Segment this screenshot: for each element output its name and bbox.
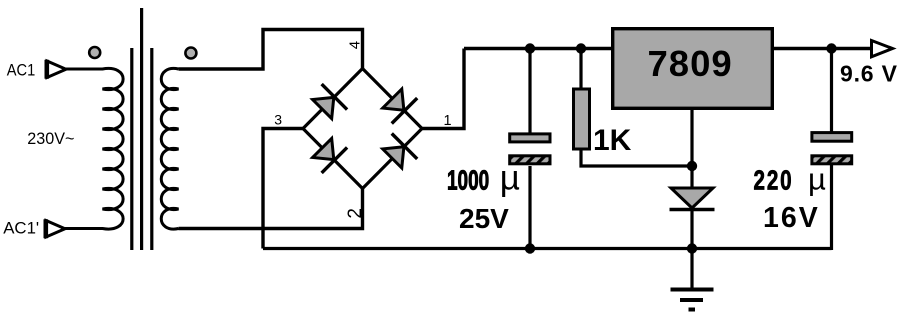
- wire C1 top stub: [528, 49, 531, 135]
- transformer T1 core: [132, 8, 152, 250]
- svg-text:16V: 16V: [763, 202, 820, 234]
- wire R1 top stub: [579, 49, 582, 91]
- svg-text:AC1: AC1: [7, 61, 36, 79]
- diode D5 anode triangle: [671, 188, 713, 208]
- svg-text:220: 220: [754, 166, 794, 197]
- svg-text:1: 1: [444, 113, 452, 129]
- bridge diode D2 (node 4 to node 1): [380, 86, 418, 124]
- wire AC1' to primary: [65, 227, 103, 230]
- wire ground rail: [263, 247, 832, 250]
- resistor R1: [574, 89, 590, 149]
- wire node 1 to positive rail: [422, 49, 464, 129]
- output arrow terminal: [872, 41, 893, 57]
- junction node C1 bottom: [525, 243, 535, 253]
- wire secondary bottom to bridge node 2: [179, 189, 363, 229]
- junction node R1 top: [576, 43, 586, 53]
- svg-text:3: 3: [274, 111, 282, 127]
- wire 7809 output: [774, 47, 872, 50]
- wire bridge edge 3-4: [303, 69, 363, 129]
- wire bridge edge 2-1: [363, 129, 423, 189]
- capacitor C1 1000u top plate: [510, 134, 550, 142]
- wire bridge edge 3-2: [303, 129, 363, 189]
- capacitor C2 220u bottom plate: [812, 156, 852, 164]
- wire C2 bottom stub: [830, 165, 833, 250]
- svg-text:9.6 V: 9.6 V: [840, 61, 898, 87]
- capacitor C2 220u top plate: [812, 133, 852, 142]
- svg-text:µ: µ: [500, 159, 520, 198]
- svg-text:2: 2: [345, 208, 366, 219]
- transformer T1 secondary winding: [161, 68, 178, 229]
- bridge diode D3 (node 3 to node 2): [309, 135, 347, 173]
- ground symbol: [671, 290, 714, 310]
- svg-text:1K: 1K: [593, 124, 632, 157]
- transformer T1 primary phase dot: [89, 47, 100, 58]
- junction node 7809 ground: [687, 161, 697, 171]
- terminal AC1: [47, 61, 66, 78]
- svg-text:4: 4: [346, 41, 363, 49]
- junction node output: [826, 43, 836, 53]
- svg-text:230V~: 230V~: [27, 129, 74, 148]
- wire 7809 ground pin: [690, 110, 693, 190]
- junction node C1 top: [525, 43, 535, 53]
- svg-text:25V: 25V: [459, 203, 509, 234]
- diode D5 cathode bar: [670, 208, 715, 212]
- transformer T1 primary winding: [103, 68, 124, 229]
- svg-text:7809: 7809: [648, 43, 733, 84]
- junction node ground rail: [687, 243, 697, 253]
- wire C2 top stub: [830, 49, 833, 133]
- IC U1 7809 body: [613, 29, 773, 109]
- capacitor C1 1000u bottom plate: [510, 156, 550, 164]
- bridge diode D1 (node 3 to node 4): [309, 84, 347, 122]
- wire bridge edge 4-1: [363, 69, 423, 129]
- svg-text:AC1': AC1': [3, 218, 39, 237]
- wire R1 bottom to 7809 ground node: [581, 149, 692, 166]
- svg-text:µ: µ: [808, 161, 826, 196]
- wire ground stem: [690, 249, 693, 290]
- wire D5 to ground rail: [690, 210, 693, 249]
- svg-text:1000: 1000: [447, 166, 489, 196]
- wire positive rail: [464, 47, 612, 50]
- bridge diode D4 (node 2 to node 1): [380, 134, 418, 172]
- wire secondary top to bridge node 4: [179, 30, 363, 70]
- transformer T1 secondary phase dot: [185, 48, 196, 59]
- wire node 3 to ground rail: [263, 129, 303, 249]
- wire C1 bottom stub: [528, 166, 531, 249]
- wire AC1 to primary: [66, 68, 103, 71]
- terminal AC1': [46, 221, 65, 238]
